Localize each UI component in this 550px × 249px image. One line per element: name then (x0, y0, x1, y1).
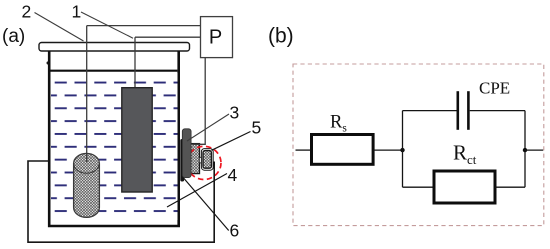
svg-text:3: 3 (230, 103, 240, 123)
wire 1 from rod 1 to potentiostat P (87, 25, 201, 27)
plate electrode (122, 88, 152, 192)
leader line from label 1 to wire 2 corner (81, 12, 133, 38)
resistor Rct (434, 171, 495, 203)
wire Rs to node 1 (374, 149, 403, 151)
svg-text:P: P (209, 26, 222, 48)
leader line from label 6 to black electrode bar (181, 175, 229, 231)
lid (39, 43, 190, 52)
rod 2 (wire to plate electrode) (134, 37, 136, 88)
gray clamp bar (item 3) (182, 129, 191, 178)
small hatched sample (item 5) (203, 151, 211, 169)
electrolyte dashes (51, 73, 178, 220)
svg-text:4: 4 (228, 165, 238, 185)
leader line from label 4 to electrolyte (167, 174, 227, 208)
top branch wire from CPE to right vertical (470, 110, 525, 112)
svg-text:(b): (b) (268, 25, 294, 48)
svg-text:CPE: CPE (479, 79, 510, 98)
right terminal wire (525, 149, 543, 151)
wire 2 from rod 2 to potentiostat P (135, 36, 201, 38)
large hatched contact block (191, 144, 200, 174)
rod 1 (wire to cylindrical electrode) (86, 26, 88, 156)
top branch wire to CPE (403, 110, 457, 112)
water level line (51, 70, 178, 72)
beaker (cell body) (49, 51, 179, 226)
leader line from label 2 to rod 1 (35, 13, 84, 42)
svg-text:5: 5 (252, 118, 262, 138)
left terminal wire (296, 149, 312, 151)
svg-text:1: 1 (72, 2, 82, 22)
leader line from label 5 to sample (212, 132, 251, 151)
svg-text:2: 2 (22, 2, 32, 22)
leader line from label 3 to gray clamp (187, 114, 229, 141)
cylindrical electrode top ellipse (74, 153, 100, 173)
red dashed ellipse highlight (187, 146, 221, 179)
rod 1 tip inside cylinder (86, 154, 88, 162)
CPE right plate (467, 91, 470, 130)
small clamp mark left of beaker wall (47, 61, 49, 64)
connector tab (199, 157, 202, 163)
wire from P down to contact block (193, 58, 206, 145)
resistor Rs (312, 135, 374, 165)
bottom branch wire to Rct (403, 186, 435, 188)
potentiostat box P (201, 17, 233, 58)
sample holder outline (201, 149, 213, 171)
CPE left plate (456, 91, 459, 130)
svg-text:(a): (a) (2, 26, 25, 47)
node 2 (523, 148, 527, 152)
cylindrical counter electrode body (74, 163, 100, 217)
parallel branch right vertical wire (524, 111, 526, 188)
outer loop wire (28, 161, 214, 242)
bottom branch wire from Rct to right vertical (495, 186, 525, 188)
svg-text:6: 6 (230, 221, 240, 241)
dashed boundary box of equivalent circuit (293, 64, 544, 226)
black electrode bar (item 6) (180, 139, 184, 182)
parallel branch left vertical wire (402, 111, 404, 188)
node 1 (400, 148, 404, 152)
